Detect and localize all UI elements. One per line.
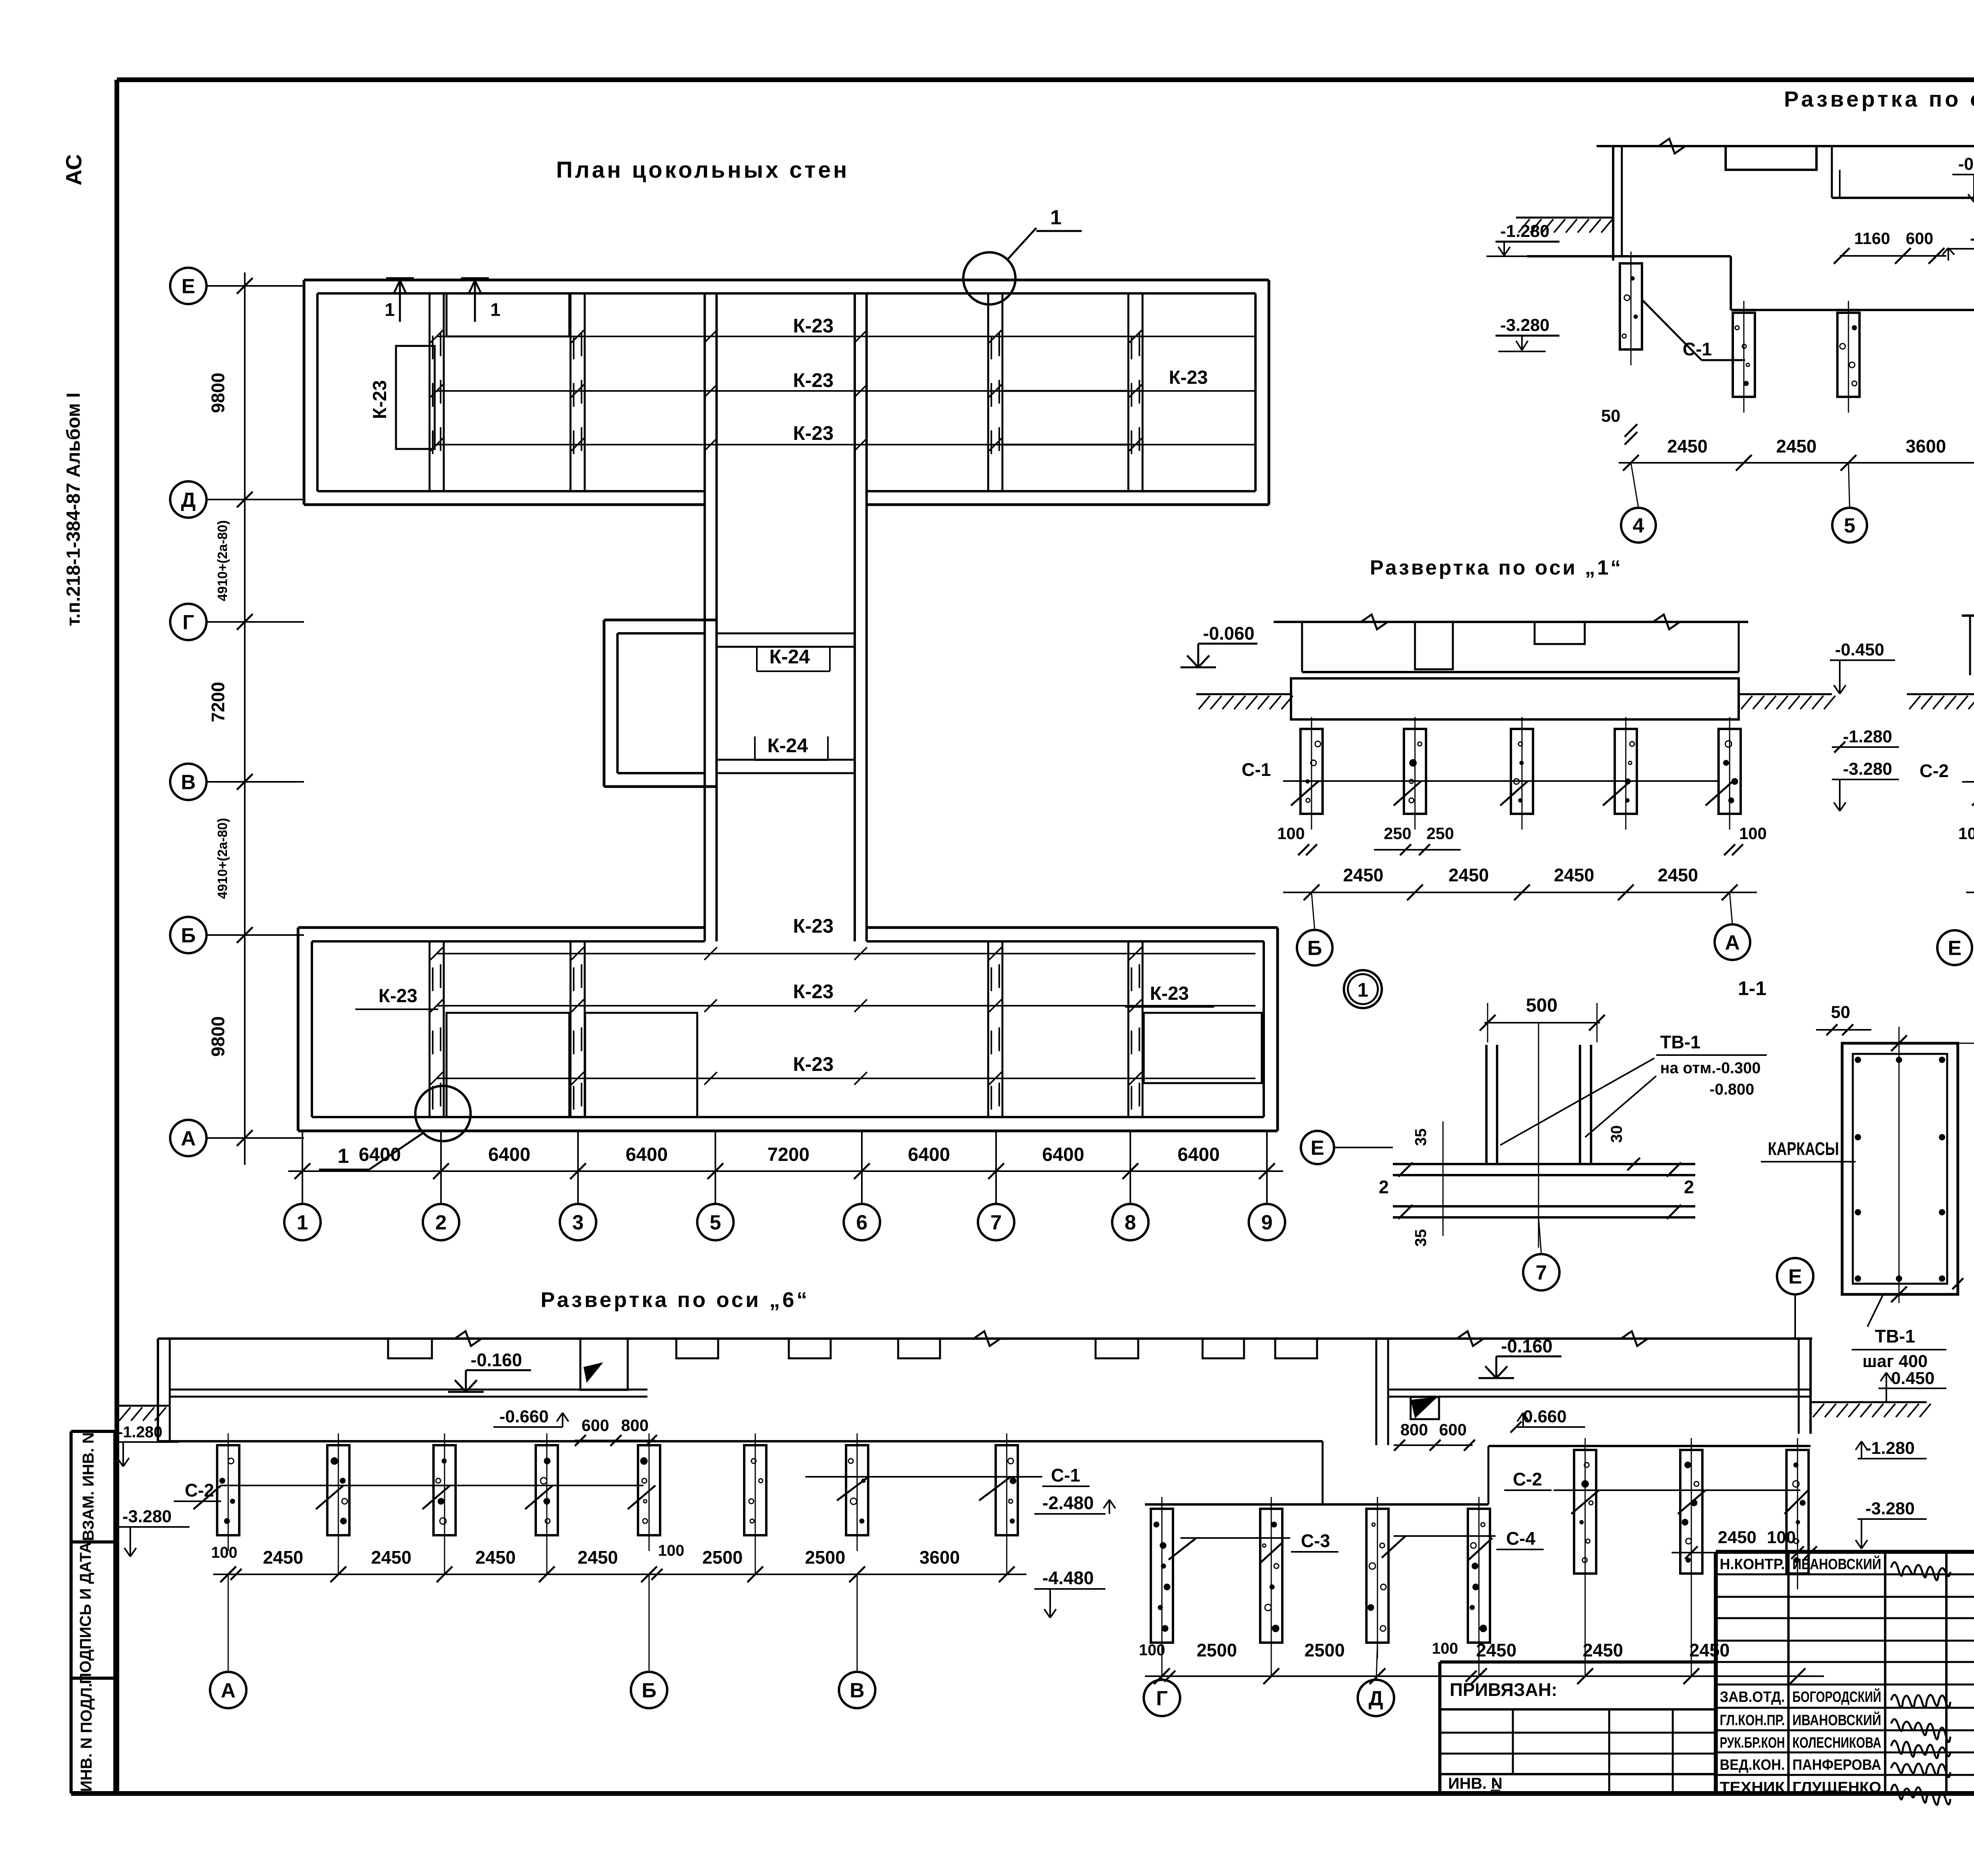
elev2 mini dim 100 left: [1958, 824, 1974, 855]
svg-text:8: 8: [1125, 1211, 1136, 1234]
svg-text:1160: 1160: [1854, 229, 1890, 248]
belev axis circle Б: [631, 1574, 667, 1708]
svg-text:2450: 2450: [1343, 865, 1383, 885]
title razvertka osi G: [1784, 86, 1974, 111]
corridor right wall: [855, 293, 867, 941]
upper block top wall: [304, 280, 1269, 293]
belev level -0.160 left: [448, 1350, 531, 1392]
svg-text:500: 500: [1526, 995, 1557, 1016]
svg-text:50: 50: [1601, 406, 1621, 426]
signature table texts: [1720, 1555, 1881, 1796]
svg-text:6400: 6400: [908, 1144, 950, 1165]
belev label C-2 right: [1504, 1469, 1808, 1514]
svg-text:С-1: С-1: [1242, 759, 1271, 780]
detail7 dim 35 upper: [1412, 1121, 1443, 1236]
svg-text:9800: 9800: [208, 1016, 228, 1057]
strip label inv podl: [78, 1683, 95, 1792]
detail7 mark 2 right: [1667, 1162, 1694, 1219]
section 1-1 dim 50: [1816, 1003, 1871, 1035]
svg-text:ВЕД.КОН.: ВЕД.КОН.: [1720, 1757, 1785, 1773]
svg-text:-1.280: -1.280: [1843, 727, 1892, 746]
svg-text:-1.280: -1.280: [1865, 1438, 1915, 1458]
label K-23 upper mid: [793, 369, 834, 391]
svg-text:2500: 2500: [1304, 1640, 1345, 1660]
elev1 dim 2450 labels: [1343, 865, 1698, 885]
svg-text:План цокольных стен: План цокольных стен: [556, 157, 850, 183]
belev dim 100 D: [1432, 1640, 1484, 1682]
section 1-1 dim 90: [1952, 1269, 1974, 1289]
label K-23 upper right: [1145, 367, 1232, 391]
belev axis circle Г: [1144, 1643, 1180, 1716]
svg-text:600: 600: [1439, 1420, 1467, 1439]
svg-text:2: 2: [435, 1211, 447, 1234]
lower block left wall: [298, 928, 312, 1131]
svg-text:1: 1: [1050, 206, 1062, 229]
belev level -4.480: [1034, 1568, 1105, 1618]
svg-text:2450: 2450: [1476, 1640, 1516, 1660]
detail7 label TV-1: [1500, 1032, 1767, 1145]
svg-text:Д: Д: [181, 489, 195, 512]
belev cap line left: [158, 1441, 1323, 1504]
belev axis circle Д: [1358, 1643, 1394, 1716]
margin text project code: [63, 392, 84, 626]
elev2 dim chain: [1966, 884, 1974, 900]
belev ground left: [117, 1406, 170, 1421]
svg-text:2450: 2450: [371, 1547, 411, 1568]
lower block top wall left: [298, 928, 705, 941]
elev1 level -1.280: [1832, 727, 1899, 753]
svg-text:Развертка по оси „Г“: Развертка по оси „Г“: [1784, 86, 1974, 111]
elevG basement floor step: [1527, 256, 1974, 310]
svg-text:0.660: 0.660: [1523, 1407, 1567, 1426]
belev level -3.280 left: [118, 1507, 190, 1557]
detail7 dim 30: [1608, 1125, 1640, 1170]
svg-text:ГЛУЩЕНКО: ГЛУЩЕНКО: [1792, 1779, 1881, 1796]
svg-text:2450: 2450: [263, 1547, 303, 1568]
dim 4910 lower: [215, 818, 230, 899]
label K-23 lower mid: [793, 980, 834, 1003]
svg-text:-0.160: -0.160: [1958, 154, 1974, 174]
elevG label C-3: [1970, 332, 1974, 362]
svg-text:-4.480: -4.480: [1042, 1568, 1094, 1588]
detail node 1 symbol: [1344, 970, 1382, 1008]
lower block room box bay3-5: [585, 1013, 697, 1117]
svg-text:ПАНФЕРОВА: ПАНФЕРОВА: [1792, 1757, 1881, 1773]
belev right wall: [1799, 1339, 1811, 1434]
svg-text:Развертка по оси „6“: Развертка по оси „6“: [540, 1288, 809, 1312]
elev1 slab line: [1302, 671, 1739, 673]
strip label podpis: [77, 1542, 94, 1684]
elevG dim chain: [1619, 455, 1974, 471]
section 1-1 axis lines: [1891, 1027, 1907, 1303]
svg-text:2450: 2450: [1776, 436, 1816, 456]
elev1 level -3.280: [1832, 759, 1899, 811]
belev axis circle Е: [1745, 1258, 1813, 1339]
signature table grid: [1716, 1552, 1974, 1793]
belev piles right group: [1574, 1438, 1809, 1589]
svg-text:600: 600: [582, 1416, 609, 1435]
svg-text:ИВАНОВСКИЙ: ИВАНОВСКИЙ: [1792, 1711, 1881, 1729]
svg-text:Н.КОНТР.: Н.КОНТР.: [1720, 1556, 1785, 1573]
upper block bottom wall right: [867, 491, 1269, 505]
upper block right wall: [1255, 280, 1269, 505]
section 1-1 label TV-1 shag 400: [1852, 1294, 1946, 1371]
svg-text:К-23: К-23: [1169, 367, 1208, 388]
elev1 axis circle А: [1715, 892, 1750, 960]
section 1-1 dim line 1180: [1958, 1035, 1974, 1302]
privyazan box frame: [1440, 1662, 1716, 1793]
belev level -0.660 left: [493, 1407, 569, 1427]
svg-text:100: 100: [1767, 1528, 1796, 1547]
corridor left wall: [705, 293, 717, 941]
svg-text:ГЛ.КОН.ПР.: ГЛ.КОН.ПР.: [1720, 1712, 1785, 1729]
svg-text:-1.280: -1.280: [118, 1423, 162, 1441]
mid block top wall: [604, 620, 717, 633]
svg-text:2450: 2450: [1583, 1640, 1623, 1660]
svg-text:Г: Г: [182, 611, 194, 634]
elev1 left edge: [1301, 622, 1303, 672]
svg-text:30: 30: [1608, 1125, 1625, 1143]
section 1-1 outer rect: [1842, 1043, 1958, 1294]
section 1-1 title: [1738, 977, 1766, 999]
svg-text:С-2: С-2: [1920, 761, 1949, 781]
detail7 wall stem: [1486, 1045, 1591, 1164]
svg-text:2450: 2450: [1689, 1640, 1730, 1660]
belev level -1.280 right: [1856, 1438, 1927, 1459]
svg-text:1: 1: [338, 1145, 349, 1168]
column dim labels 6400/7200: [359, 1144, 1220, 1165]
section 1-1 rebar dots: [1855, 1057, 1945, 1282]
svg-text:К-23: К-23: [370, 380, 390, 419]
svg-text:9: 9: [1261, 1211, 1273, 1234]
elevG axis circle 5: [1832, 463, 1867, 543]
svg-text:С-2: С-2: [185, 1480, 214, 1500]
svg-text:35: 35: [1412, 1229, 1430, 1247]
svg-text:АС: АС: [61, 154, 86, 186]
elev1 mini dim 250 250: [1374, 824, 1461, 855]
svg-text:-3.280: -3.280: [1843, 759, 1892, 779]
svg-text:Е: Е: [182, 275, 195, 298]
belev dim chain left: [213, 1535, 1026, 1582]
svg-text:2450: 2450: [578, 1547, 618, 1568]
margin text AC: [61, 154, 86, 186]
privyazan box rows: [1440, 1709, 1716, 1774]
svg-text:100: 100: [1958, 824, 1974, 843]
label K-23 lower right: [1125, 983, 1214, 1007]
svg-text:ИНВ. N ПОДЛ.: ИНВ. N ПОДЛ.: [78, 1683, 95, 1792]
svg-text:7200: 7200: [208, 682, 228, 722]
svg-text:К-24: К-24: [769, 646, 810, 668]
svg-text:2450: 2450: [1718, 1528, 1756, 1547]
svg-text:ИВАНОВСКИЙ: ИВАНОВСКИЙ: [1792, 1555, 1881, 1573]
belev label C-4: [1382, 1528, 1544, 1560]
svg-text:9800: 9800: [208, 373, 228, 413]
belev level 0.450 right: [1878, 1369, 1946, 1402]
elevG dim 50 left: [1601, 406, 1637, 445]
svg-text:А: А: [181, 1127, 196, 1150]
elevG stair rect: [1726, 146, 1816, 170]
elevG dim 3600 a: [1906, 436, 1946, 456]
label K-24 upper: [757, 646, 830, 671]
svg-text:К-23: К-23: [793, 980, 834, 1003]
belev joint wall: [1376, 1339, 1388, 1445]
upper block bottom wall left: [304, 491, 705, 505]
lower block bottom wall: [298, 1117, 1278, 1131]
elevG dims 1160 600: [1834, 229, 1946, 264]
svg-text:250: 250: [1426, 824, 1454, 843]
svg-text:50: 50: [1831, 1003, 1850, 1022]
detail node 1 top: [963, 206, 1082, 304]
belev piles left group: [217, 1433, 1018, 1551]
belev axis circle А: [210, 1574, 246, 1708]
detail7 circle 7: [1523, 1217, 1559, 1290]
svg-text:6400: 6400: [1042, 1144, 1085, 1165]
svg-text:2450: 2450: [1667, 436, 1708, 456]
svg-text:5: 5: [710, 1211, 721, 1234]
belev cap line right: [1488, 1446, 1811, 1504]
elevG level -3.280: [1496, 315, 1559, 351]
belev level 0.660 right: [1511, 1407, 1585, 1433]
belev step mark right: [1411, 1397, 1439, 1419]
svg-text:3600: 3600: [919, 1547, 960, 1568]
belev slab right: [1388, 1390, 1811, 1397]
elev1 mini dim 100 right: [1724, 824, 1767, 855]
elev1 axis circle Б: [1297, 892, 1332, 965]
elev2 label C-2: [1920, 761, 1974, 806]
detail7 axis vertical: [1538, 1023, 1539, 1248]
belev dims 600 800 left: [574, 1416, 657, 1446]
svg-text:А: А: [1725, 931, 1740, 954]
elevG left wall: [1613, 146, 1622, 261]
strip label vzam inv: [80, 1432, 97, 1541]
svg-text:2500: 2500: [805, 1547, 845, 1568]
svg-text:2450: 2450: [1658, 865, 1698, 885]
elevG level -0.160: [1952, 154, 1974, 202]
lower block partitions axes 2,3,7,8: [430, 941, 1143, 1117]
label K-23 upper top: [793, 315, 834, 337]
svg-text:ВЗАМ. ИНВ. N: ВЗАМ. ИНВ. N: [80, 1432, 97, 1541]
svg-text:100: 100: [1432, 1640, 1458, 1657]
elevG level -1.280: [1486, 222, 1559, 256]
label K-24 lower: [755, 734, 828, 760]
upper block room box bay2-3: [447, 293, 569, 336]
svg-text:К-23: К-23: [793, 315, 834, 337]
svg-text:шаг 400: шаг 400: [1862, 1352, 1927, 1371]
svg-text:К-23: К-23: [793, 915, 834, 937]
svg-text:В: В: [850, 1679, 865, 1702]
svg-text:4: 4: [1633, 515, 1644, 537]
svg-text:ЗАВ.ОТД.: ЗАВ.ОТД.: [1720, 1689, 1785, 1705]
svg-text:КОЛЕСНИКОВА: КОЛЕСНИКОВА: [1792, 1735, 1881, 1751]
svg-text:т.п.218-1-384-87 Альбом I: т.п.218-1-384-87 Альбом I: [63, 392, 84, 626]
belev piles deep group: [1151, 1497, 1490, 1658]
svg-text:-0.800: -0.800: [1709, 1081, 1754, 1098]
svg-text:3: 3: [572, 1211, 584, 1234]
detail node 1 bottom: [319, 1086, 471, 1170]
pile elevG axis5: [1837, 301, 1860, 413]
svg-text:2500: 2500: [1197, 1640, 1237, 1660]
svg-text:4910+(2а-80): 4910+(2а-80): [215, 520, 230, 601]
lower block panel joint lines K-23: [430, 947, 1255, 1085]
upper block partitions axes 2,3,7,8: [430, 293, 1143, 491]
elev2 left edge: [1970, 616, 1974, 716]
elev1 ground left: [1196, 694, 1293, 709]
svg-text:Д: Д: [1368, 1687, 1383, 1710]
svg-text:2: 2: [1379, 1177, 1389, 1197]
attribute strip cells: [71, 1431, 114, 1793]
svg-text:ТВ-1: ТВ-1: [1875, 1326, 1915, 1346]
svg-text:4910+(2а-80): 4910+(2а-80): [215, 818, 230, 899]
belev axis circle В: [839, 1574, 875, 1708]
detail7 wall horiz upper: [1393, 1164, 1695, 1175]
section 1-1 cage rect: [1853, 1054, 1947, 1284]
dim 9800 lower: [208, 1016, 228, 1057]
detail7 wall horiz lower: [1393, 1206, 1695, 1217]
svg-text:100: 100: [1277, 824, 1305, 843]
belev level -2.480: [1034, 1493, 1115, 1514]
elevG inner wall tick: [1832, 146, 1840, 198]
svg-text:С-4: С-4: [1506, 1528, 1536, 1549]
svg-text:1: 1: [490, 299, 501, 320]
svg-text:А: А: [221, 1679, 236, 1702]
svg-text:БОГОРОДСКИЙ: БОГОРОДСКИЙ: [1792, 1688, 1881, 1705]
upper block room box bay1-2: [396, 346, 435, 449]
svg-text:800: 800: [1400, 1420, 1428, 1439]
lower block room box bay8-9: [1144, 1013, 1262, 1083]
belev deep notch 600x800: [580, 1339, 628, 1390]
detail7 dim 35 lower: [1412, 1229, 1430, 1247]
mid block left wall: [604, 620, 617, 787]
signatures: [1891, 1562, 1950, 1805]
row dim chain line: [244, 272, 246, 1165]
svg-text:В: В: [181, 771, 196, 794]
belev level -0.160 right: [1479, 1336, 1561, 1378]
svg-text:ПОДПИСЬ И ДАТА: ПОДПИСЬ И ДАТА: [77, 1542, 94, 1684]
belev top line: [158, 1331, 1812, 1346]
section flag 1 right: [461, 278, 501, 322]
elevG dim 2450 a: [1667, 436, 1708, 456]
belev ground right: [1811, 1402, 1931, 1417]
elev1 level -0.060: [1180, 623, 1257, 667]
title razvertka osi 1: [1370, 556, 1623, 579]
elevG ground left: [1516, 218, 1613, 233]
svg-text:Е: Е: [1948, 937, 1962, 960]
plan title: [556, 157, 850, 183]
upper block room box bay7-8: [1002, 391, 1128, 445]
svg-text:К-23: К-23: [793, 422, 834, 444]
svg-text:7200: 7200: [767, 1144, 810, 1165]
svg-text:-3.280: -3.280: [122, 1507, 172, 1526]
svg-text:КАРКАСЫ: КАРКАСЫ: [1768, 1138, 1839, 1159]
svg-text:100: 100: [1739, 824, 1767, 843]
elev1 level -0.450: [1830, 640, 1895, 694]
elev1 notch 2: [1535, 622, 1585, 644]
svg-text:600: 600: [1906, 229, 1933, 248]
svg-text:Г: Г: [1156, 1687, 1167, 1710]
elevG dim 2450 b: [1776, 436, 1816, 456]
svg-text:2500: 2500: [702, 1547, 743, 1568]
svg-text:К-23: К-23: [379, 986, 418, 1007]
svg-text:2450: 2450: [1449, 865, 1489, 885]
svg-text:Б: Б: [1307, 937, 1322, 960]
section 1-1 label karkasy: [1761, 1138, 1856, 1162]
svg-text:6: 6: [856, 1211, 868, 1234]
belev dim 100 G: [1139, 1641, 1175, 1682]
elev1 notch 1: [1415, 622, 1453, 669]
belev dim 100 left: [211, 1544, 242, 1580]
elev1 label C-1: [1242, 759, 1733, 806]
svg-text:ТВ-1: ТВ-1: [1660, 1032, 1700, 1052]
svg-text:250: 250: [1384, 824, 1411, 843]
belev cap line deep: [1145, 1503, 1488, 1506]
label K-23 upper left rotated: [370, 380, 390, 419]
svg-text:-3.280: -3.280: [1500, 315, 1550, 335]
detail7 axis circle Е: [1301, 1131, 1393, 1164]
svg-text:С-2: С-2: [1513, 1469, 1542, 1489]
svg-text:1: 1: [385, 299, 395, 320]
belev left wall: [158, 1339, 170, 1441]
svg-text:К-24: К-24: [767, 734, 808, 757]
belev label C-2 left: [174, 1480, 655, 1509]
elev1 dim chain: [1283, 884, 1757, 900]
belev windows: [388, 1339, 1317, 1358]
svg-text:Развертка по оси „1“: Развертка по оси „1“: [1370, 556, 1623, 579]
svg-text:2450: 2450: [475, 1547, 516, 1568]
lower block room box bay2-3: [447, 1013, 569, 1117]
elev1 ground right: [1739, 694, 1835, 709]
elevG level -0.660: [1942, 229, 1974, 261]
svg-text:6400: 6400: [488, 1144, 531, 1165]
svg-text:К-23: К-23: [793, 369, 834, 391]
svg-text:7: 7: [991, 1211, 1002, 1234]
elev2 ground left: [1907, 694, 1974, 709]
elevG label C-1: [1642, 300, 1745, 360]
svg-text:800: 800: [621, 1416, 649, 1435]
svg-text:100: 100: [658, 1542, 685, 1559]
svg-text:С-1: С-1: [1051, 1465, 1080, 1485]
belev level -1.280 left: [115, 1423, 178, 1467]
elev2 axis circles Е А: [1937, 892, 1974, 965]
section flag 1 left: [385, 278, 414, 322]
svg-text:1: 1: [1357, 979, 1368, 1001]
svg-text:-1.280: -1.280: [1500, 222, 1550, 241]
detail7 mark 2 left: [1379, 1162, 1413, 1219]
elevG lower chord: [1832, 197, 1974, 199]
belev label C-1: [805, 1465, 1090, 1500]
svg-text:3600: 3600: [1906, 436, 1946, 456]
label K-23 lower top: [793, 915, 834, 937]
label K-23 lower bottom: [793, 1053, 834, 1075]
dim 4910 upper: [215, 520, 230, 601]
privyazan inv label: [1448, 1775, 1503, 1792]
elev1 piles: [1300, 717, 1741, 830]
svg-text:С-3: С-3: [1301, 1530, 1330, 1551]
svg-text:1-1: 1-1: [1738, 977, 1766, 999]
svg-text:-0.450: -0.450: [1835, 640, 1884, 659]
pile elevG mid1: [1733, 301, 1755, 413]
belev level -3.280 right: [1856, 1499, 1927, 1549]
belev dim labels right: [1197, 1640, 1730, 1660]
svg-text:о: о: [1492, 1777, 1497, 1788]
dim 7200: [208, 682, 228, 722]
row axis circles Е Д Г В Б А: [170, 268, 304, 1156]
svg-text:2450: 2450: [1554, 865, 1594, 885]
elev1 top line: [1274, 614, 1748, 629]
svg-text:100: 100: [1139, 1641, 1165, 1659]
svg-text:100: 100: [211, 1544, 238, 1561]
svg-text:-0.160: -0.160: [471, 1350, 522, 1370]
privyazan box cols: [1513, 1709, 1673, 1793]
